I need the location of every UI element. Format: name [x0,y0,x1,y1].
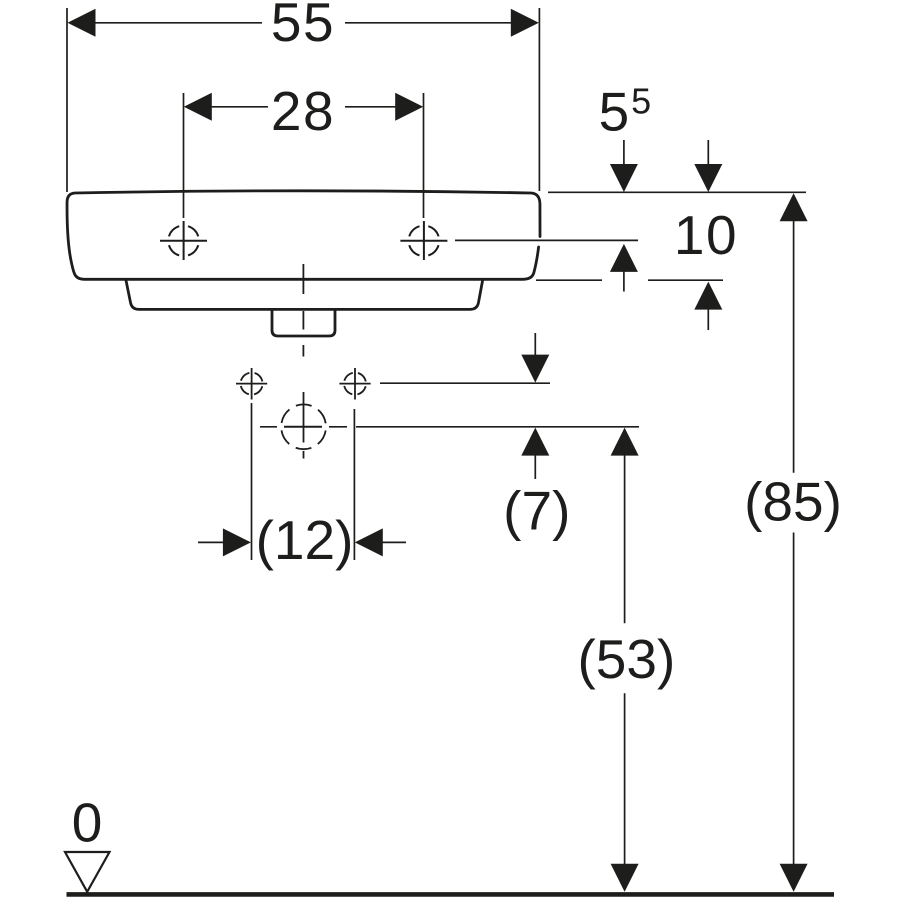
svg-text:(85): (85) [744,471,842,533]
svg-text:5: 5 [599,81,630,143]
svg-text:55: 55 [271,0,335,53]
svg-text:5: 5 [631,81,651,122]
svg-text:(7): (7) [503,480,570,542]
svg-text:(53): (53) [577,628,675,690]
svg-text:0: 0 [72,792,103,854]
svg-text:10: 10 [674,204,738,266]
svg-text:28: 28 [271,80,335,142]
svg-text:(12): (12) [256,509,354,571]
